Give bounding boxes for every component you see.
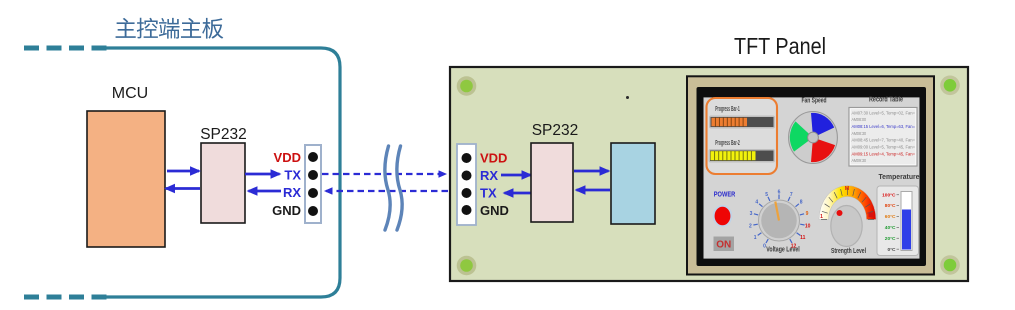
svg-text:SP232: SP232 [532,122,579,139]
fan blade green [790,121,813,151]
svg-text:80°C: 80°C [885,203,896,209]
fan disc [789,112,838,164]
strength gauge ticks [821,188,874,220]
svg-text:1: 1 [754,235,757,241]
wire SP232 to TX pin panel [505,192,534,195]
power LED [714,206,732,226]
J1 pin 3 [308,188,318,198]
wire SP232 to MCU RX [166,187,200,190]
svg-text:1: 1 [820,214,823,220]
svg-text:GND: GND [272,203,301,218]
record table rows [852,110,916,163]
svg-text:TFT Panel: TFT Panel [734,33,826,59]
TFT controller block [611,143,655,224]
voltage knob numbers [749,189,811,249]
temperature scale [882,192,899,253]
J1 pin 4 [308,206,318,216]
svg-text:AM08:45 Level=7, Temp=40, Fan=: AM08:45 Level=7, Temp=40, Fan= [852,138,916,143]
svg-text:AM09:00 Level=5, Temp=45, Fan=: AM09:00 Level=5, Temp=45, Fan= [852,145,916,150]
svg-text:Strength Level: Strength Level [831,248,866,255]
strength marker square [869,213,874,218]
fan blade red [811,138,835,163]
svg-text:4: 4 [755,200,758,206]
J2 pin 1 [462,153,472,163]
svg-text:AM09:15 Level=4, Temp=45, Fan=: AM09:15 Level=4, Temp=45, Fan= [852,151,916,156]
temperature bar [901,192,912,251]
svg-text:3: 3 [750,211,753,217]
LCD display area [704,97,920,258]
ON button [714,237,735,252]
progress group frame [707,98,778,174]
TFT board PCB [450,67,968,281]
LCD outer frame [687,76,934,274]
record table box [849,108,917,167]
mounting hole bottom-right [940,255,960,275]
svg-text:9: 9 [806,211,809,217]
svg-text:8: 8 [800,200,803,206]
svg-text:SP232: SP232 [200,126,247,143]
svg-text:Temperature: Temperature [879,174,920,181]
voltage knob [759,200,800,241]
J1 pin 1 [308,152,318,162]
temperature panel [877,186,919,256]
svg-text:Progress Bar-2: Progress Bar-2 [715,140,740,147]
mainboard outline dashed bottom [24,295,108,300]
svg-text:ON: ON [716,240,731,251]
svg-text:0°C: 0°C [887,247,896,253]
svg-text:2: 2 [749,223,752,229]
wire controller to SP232 [577,189,611,192]
stray mark [626,96,629,99]
svg-text:RX: RX [480,168,498,183]
svg-text:7: 7 [790,192,793,198]
svg-text:AM08:15 Level=6, Temp=63, Fan=: AM08:15 Level=6, Temp=63, Fan= [852,124,916,129]
mainboard outline solid [105,48,340,297]
cable break wave 2 [397,146,402,230]
strength gauge band [819,186,876,220]
svg-text:AM07:30 Level=5, Temp=02, Fan=: AM07:30 Level=5, Temp=02, Fan= [852,110,916,115]
serial link RX dashed [326,190,449,192]
strength knob dot [837,210,843,216]
connector J1 [305,145,321,223]
svg-text:M: M [845,186,849,192]
svg-text:11: 11 [800,235,806,241]
mounting hole top-right [940,76,960,96]
svg-text:Progress Bar-1: Progress Bar-1 [715,106,740,113]
svg-text:VDD: VDD [480,151,507,166]
svg-text:POWER: POWER [714,190,736,199]
svg-text:Voltage Level: Voltage Level [766,247,800,254]
J2 pin 3 [462,188,472,198]
svg-text:AM09:30: AM09:30 [852,158,867,163]
svg-text:100°C: 100°C [882,192,896,198]
svg-text:10: 10 [805,223,811,229]
J1 pin 2 [308,170,318,180]
wire SP232 to TX pin [245,173,280,176]
svg-text:AM08:00: AM08:00 [852,117,867,122]
cable break wave 1 [385,146,390,230]
wire RX pin to SP232 panel [501,174,531,177]
fan blade blue [811,113,834,138]
J2 pin 2 [462,171,472,181]
wire SP232 to controller [574,170,609,173]
svg-text:TX: TX [480,186,497,201]
svg-text:20°C: 20°C [885,236,896,242]
mounting hole bottom-left [457,256,477,276]
wire MCU to SP232 TX [167,170,199,173]
mainboard outline dashed top [24,46,108,51]
svg-text:Fan Speed: Fan Speed [802,98,827,105]
progress bar 1 [709,116,775,129]
svg-text:Record Table: Record Table [869,97,903,104]
svg-text:GND: GND [480,203,509,218]
title 主控端主板 [116,18,224,39]
svg-text:TX: TX [284,168,301,183]
svg-text:40°C: 40°C [885,225,896,231]
svg-text:MCU: MCU [112,85,148,102]
mounting hole top-left [457,76,477,96]
MCU U1 [87,111,165,247]
svg-text:AM08:30: AM08:30 [852,131,867,136]
SP232 U3 [531,143,573,222]
svg-text:VDD: VDD [274,150,301,165]
strength knob [831,206,862,247]
SP232 U2 [201,143,245,223]
progress bar 2 [709,149,776,163]
J2 pin 4 [462,205,472,215]
svg-text:RX: RX [283,185,301,200]
svg-text:6: 6 [778,189,781,195]
serial link TX dashed [322,173,446,175]
voltage knob ticks [753,195,804,244]
svg-text:5: 5 [765,192,768,198]
voltage needle [775,202,779,221]
fan hub [808,132,819,143]
wire RX pin to SP232 [249,190,282,193]
connector J2 [457,144,476,225]
LCD bezel [697,87,927,266]
svg-text:60°C: 60°C [885,214,896,220]
